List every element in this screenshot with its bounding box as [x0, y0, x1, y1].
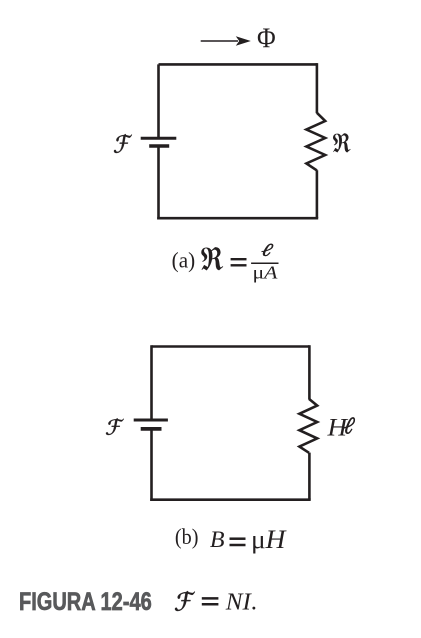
svg-text:(a): (a): [172, 248, 195, 272]
wire left lower segment (b): [150, 429, 153, 501]
svg-text:μA: μA: [252, 263, 278, 283]
svg-text:(b): (b): [175, 524, 199, 549]
caption (a) numerator ell: [262, 244, 273, 256]
figure caption script-F mmf: [175, 591, 195, 611]
mmf battery source short plate (b): [141, 427, 162, 431]
wire left upper segment (a): [157, 64, 160, 137]
figure caption NI.: [225, 588, 257, 615]
figure label FIGURA 12-46: [19, 588, 152, 616]
svg-text:NI.: NI.: [225, 588, 257, 615]
wire bottom segment (b): [150, 498, 311, 501]
wire right upper segment (b): [308, 345, 311, 399]
caption (a) equals sign: [231, 259, 247, 265]
mmf battery source long plate (a): [141, 137, 177, 140]
caption (b) italic B: [210, 528, 225, 554]
figure caption equals sign: [202, 598, 219, 604]
mmf battery source short plate (a): [149, 144, 169, 148]
wire right upper segment (a): [316, 63, 319, 113]
caption (b) equals sign: [230, 539, 246, 545]
wire top segment (a): [159, 63, 317, 66]
wire top segment (b): [152, 345, 310, 348]
wire left lower segment (a): [157, 146, 160, 220]
flux label PHI: [257, 22, 276, 54]
caption (a) fraction bar: [251, 262, 278, 264]
caption (a) denominator mu-A: [252, 263, 278, 283]
caption (b) mu-H: [251, 524, 287, 553]
wire right lower segment (b): [308, 453, 311, 500]
resistor Hl zigzag (b): [299, 399, 317, 453]
svg-text:Φ: Φ: [257, 22, 276, 54]
label script-F mmf (b): [106, 418, 124, 435]
caption (b) "(b)": [175, 524, 199, 549]
wire left upper segment (b): [150, 345, 153, 419]
label fraktur-R reluctance (a): [333, 133, 351, 152]
svg-text:μH: μH: [251, 524, 287, 553]
mmf battery source long plate (b): [134, 419, 168, 422]
svg-text:FIGURA 12-46: FIGURA 12-46: [19, 588, 152, 616]
caption (a) fraktur-R: [201, 247, 223, 270]
caption (a) "(a)": [172, 248, 195, 272]
svg-text:B: B: [210, 528, 225, 554]
wire bottom segment (a): [157, 217, 318, 220]
label H italic (b): [326, 413, 348, 441]
label ell script (b): [344, 417, 355, 433]
flux arrow: [201, 36, 251, 45]
wire right lower segment (a): [316, 170, 319, 218]
resistor reluctance zigzag (a): [306, 113, 325, 171]
label script-F mmf (a): [114, 134, 132, 153]
